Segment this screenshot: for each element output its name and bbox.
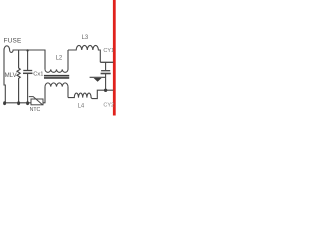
svg-text:NTC: NTC [30, 107, 41, 113]
svg-text:FUSE: FUSE [4, 38, 22, 45]
svg-text:CY1: CY1 [103, 48, 114, 54]
svg-text:L3: L3 [82, 35, 89, 41]
svg-text:CY2: CY2 [103, 103, 114, 109]
svg-text:MLV: MLV [5, 72, 18, 79]
svg-text:Cx1: Cx1 [33, 72, 43, 78]
svg-text:L2: L2 [56, 56, 63, 62]
svg-text:L4: L4 [78, 104, 85, 110]
